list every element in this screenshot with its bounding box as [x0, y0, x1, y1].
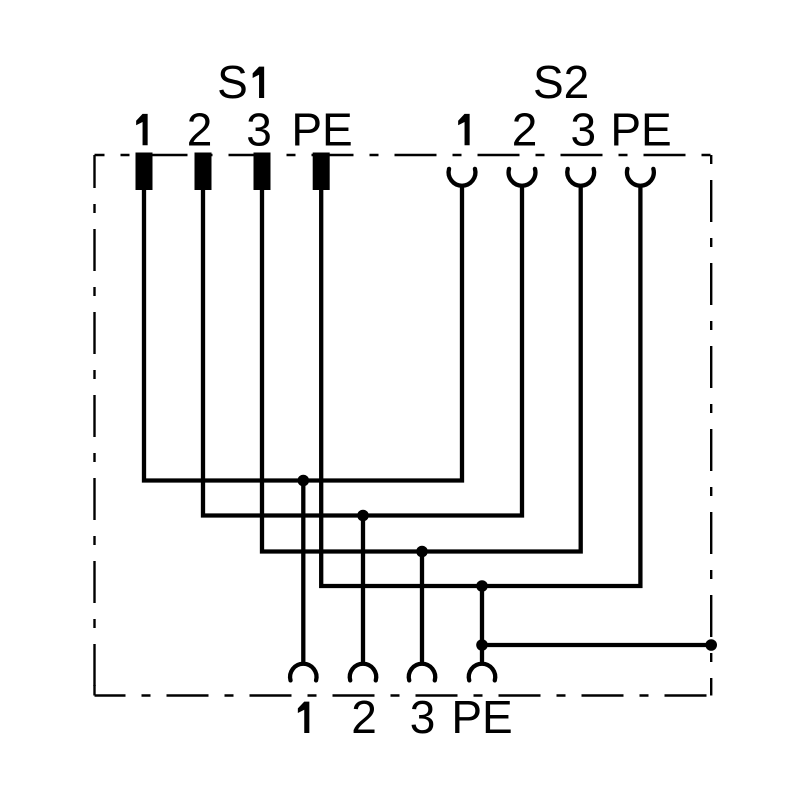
- S1 pin label 1: [136, 114, 148, 145]
- wire net PE: S1.PE to S2.PE: [321, 185, 640, 586]
- S1 male pin contact PE: [313, 153, 330, 191]
- svg-text:PE: PE: [610, 103, 671, 155]
- junction node net 3: [416, 546, 428, 558]
- wire net 1: S1.1 to S2.1: [144, 185, 462, 480]
- svg-text:S: S: [217, 56, 248, 108]
- border dash-dot frame: top side: [95, 154, 712, 156]
- S1 male pin contact 2: [195, 153, 212, 191]
- wire net 3: S1.3 to S2.3: [262, 185, 581, 551]
- S2 female socket contact 1: [449, 169, 476, 186]
- svg-text:3: 3: [410, 691, 436, 743]
- junction node net PE lower: [476, 639, 488, 651]
- wire branch net PE down to bottom pin PE: [480, 586, 484, 665]
- wire branch net 2 down to bottom pin 2: [361, 516, 365, 665]
- bottom connector socket contact 1: [290, 664, 316, 681]
- node PE termination at border (housing): [705, 639, 717, 651]
- S2 female socket contact 3: [567, 169, 594, 186]
- bottom connector socket contact 3: [409, 664, 435, 681]
- svg-text:2: 2: [351, 691, 377, 743]
- svg-text:3: 3: [571, 103, 597, 155]
- junction node net 1: [298, 475, 310, 487]
- junction node net 2: [357, 510, 369, 522]
- bottom connector pin label 1: [298, 702, 310, 733]
- S1 male pin contact 1: [136, 153, 153, 191]
- svg-text:2: 2: [512, 103, 538, 155]
- bottom connector socket contact 2: [350, 664, 376, 681]
- S1 male pin contact 3: [254, 153, 271, 191]
- svg-text:PE: PE: [451, 691, 512, 743]
- wire net PE stub to housing/border: [482, 643, 711, 647]
- svg-text:3: 3: [246, 103, 272, 155]
- S2 female socket contact PE: [627, 169, 654, 186]
- border dash-dot frame: bottom side: [95, 694, 712, 696]
- svg-text:2: 2: [187, 103, 213, 155]
- wire branch net 1 down to bottom pin 1: [301, 481, 305, 665]
- S2 female socket contact 2: [509, 169, 536, 186]
- bottom connector socket contact PE: [469, 664, 495, 681]
- svg-text:PE: PE: [291, 103, 352, 155]
- svg-text:S2: S2: [533, 56, 589, 108]
- border dash-dot frame: left side: [93, 155, 95, 696]
- wire branch net 3 down to bottom pin 3: [420, 552, 424, 665]
- border dash-dot frame: bottom-left corner stub: [93, 685, 95, 696]
- border dash-dot frame: right side: [710, 155, 712, 696]
- S2 pin label 1: [458, 114, 470, 145]
- wire net 2: S1.2 to S2.2: [203, 185, 522, 515]
- junction node net PE upper: [476, 580, 488, 592]
